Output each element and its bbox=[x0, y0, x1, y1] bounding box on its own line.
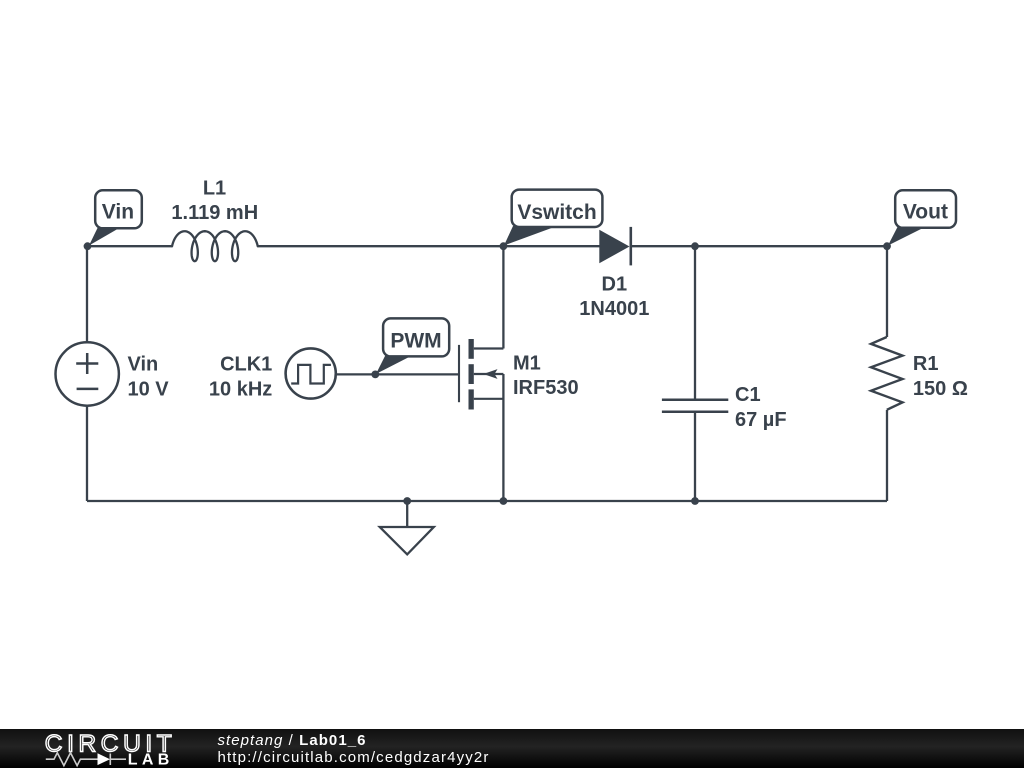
svg-text:67 µF: 67 µF bbox=[735, 409, 787, 431]
svg-text:http://circuitlab.com/cedgdzar: http://circuitlab.com/cedgdzar4yy2r bbox=[218, 749, 490, 766]
wire Vswitch node down to M1 drain bbox=[502, 246, 504, 348]
wire right rail lower (R1 to bottom rail) bbox=[886, 410, 888, 501]
capacitor C1 plates bbox=[662, 400, 728, 412]
svg-text:CLK1: CLK1 bbox=[220, 354, 272, 376]
node dots bbox=[84, 242, 891, 505]
flag Vswitch bbox=[504, 190, 602, 246]
svg-text:steptang / Lab01_6: steptang / Lab01_6 bbox=[218, 732, 367, 749]
svg-text:1.119 mH: 1.119 mH bbox=[171, 202, 258, 224]
wire bottom rail bbox=[87, 500, 887, 502]
wire Vswitch node to diode anode bbox=[503, 245, 600, 247]
logo squiggle resistor-diode bbox=[46, 753, 126, 766]
wire C1 upper lead bbox=[694, 246, 696, 400]
transistor M1 (NMOS) bbox=[459, 339, 503, 410]
wire left rail upper (Vin node down to source) bbox=[86, 246, 88, 342]
wire left rail lower (source to bottom rail) bbox=[86, 406, 88, 502]
node ground junction dot bbox=[403, 497, 411, 505]
node M1 source junction dot bbox=[500, 497, 508, 505]
svg-text:10 V: 10 V bbox=[128, 378, 170, 400]
svg-text:PWM: PWM bbox=[390, 330, 441, 353]
flag Vout bbox=[888, 190, 956, 245]
node Vswitch dot bbox=[500, 242, 508, 250]
svg-text:LAB: LAB bbox=[128, 751, 174, 768]
svg-text:Vout: Vout bbox=[903, 201, 948, 224]
svg-text:C1: C1 bbox=[735, 384, 761, 406]
wire diode cathode to Vout node bbox=[631, 245, 887, 247]
node diode-C1 junction dot bbox=[691, 242, 699, 250]
flag Vin bbox=[89, 190, 142, 245]
ground bbox=[380, 527, 434, 554]
svg-text:L1: L1 bbox=[203, 177, 226, 199]
node Vin dot bbox=[84, 242, 92, 250]
svg-text:Vin: Vin bbox=[128, 354, 159, 376]
svg-text:150 Ω: 150 Ω bbox=[913, 378, 968, 400]
wire C1 lower lead bbox=[694, 412, 696, 501]
wire top rail left (Vin node to inductor) bbox=[87, 245, 173, 247]
svg-text:1N4001: 1N4001 bbox=[579, 298, 649, 320]
wire CLK1 to M1 gate bbox=[337, 373, 459, 375]
inductor L1 coil bbox=[172, 231, 258, 261]
svg-text:D1: D1 bbox=[602, 273, 628, 295]
wire inductor to Vswitch node bbox=[258, 245, 504, 247]
voltage source Vin circle bbox=[55, 342, 118, 405]
diode D1 bbox=[599, 227, 631, 266]
node Vout dot bbox=[883, 242, 891, 250]
svg-text:IRF530: IRF530 bbox=[513, 377, 579, 399]
footer bar bbox=[0, 729, 1024, 768]
clock source CLK1 circle bbox=[286, 348, 336, 398]
node C1 bottom junction dot bbox=[691, 497, 699, 505]
svg-text:M1: M1 bbox=[513, 353, 541, 375]
node PWM dot bbox=[371, 371, 379, 379]
svg-text:10 kHz: 10 kHz bbox=[209, 378, 272, 400]
square wave glyph bbox=[291, 365, 331, 384]
svg-text:R1: R1 bbox=[913, 353, 939, 375]
wire right rail upper (Vout node to R1) bbox=[886, 246, 888, 337]
wire M1 source down to bottom rail bbox=[502, 374, 504, 501]
svg-text:Vswitch: Vswitch bbox=[517, 201, 596, 224]
flag PWM bbox=[376, 318, 449, 374]
resistor R1 zigzag bbox=[871, 337, 903, 410]
wire ground stub bbox=[406, 501, 408, 527]
svg-text:Vin: Vin bbox=[102, 201, 134, 224]
